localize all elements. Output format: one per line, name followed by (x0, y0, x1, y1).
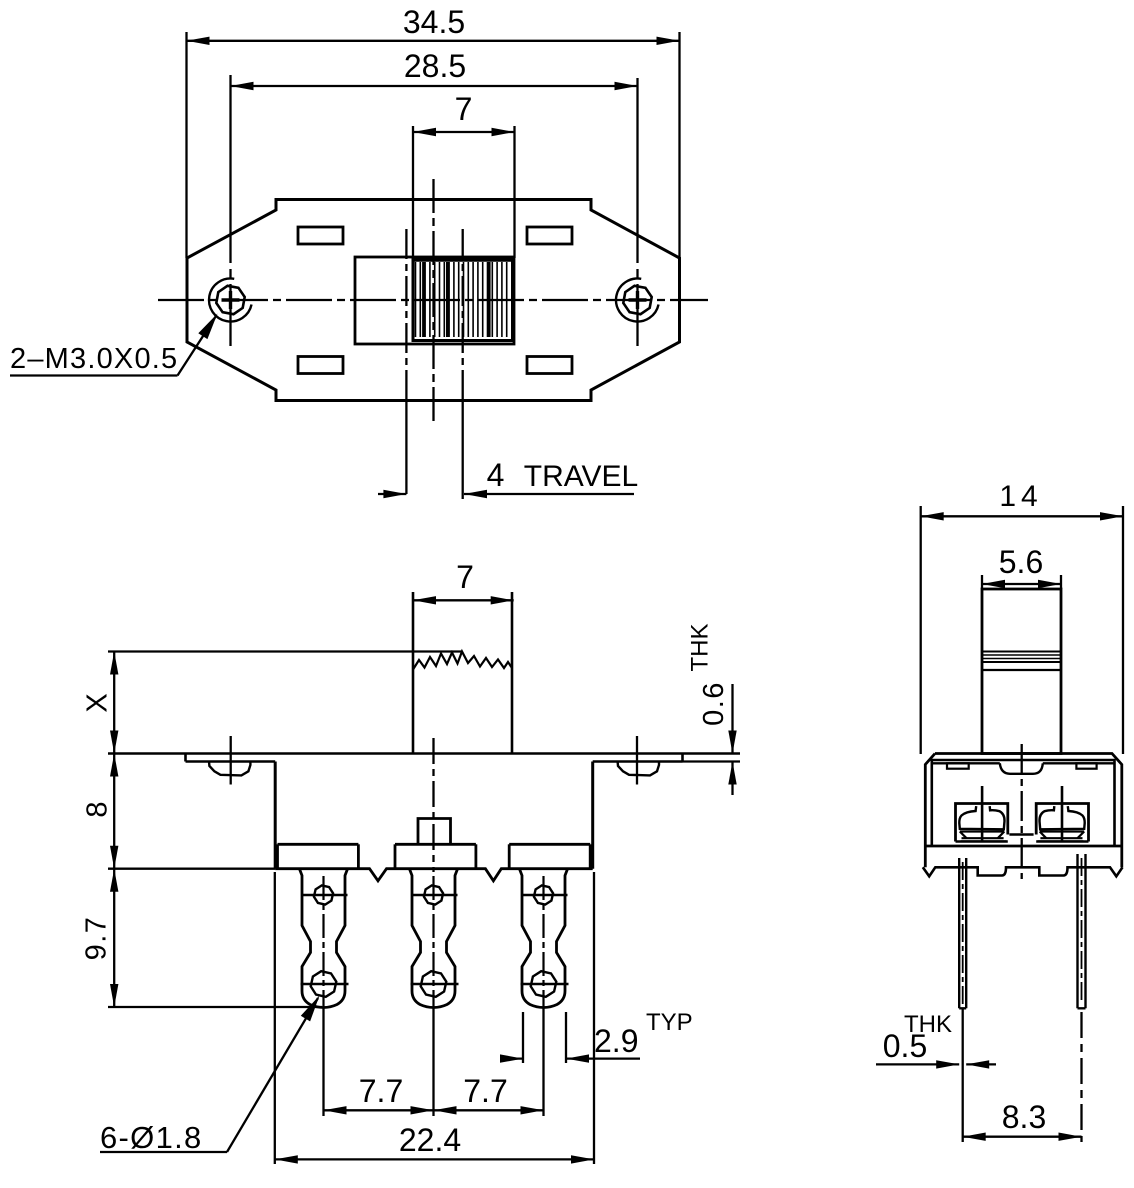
svg-text:7.7: 7.7 (463, 1073, 507, 1109)
top view: travel position line right (462, 229, 464, 400)
front view: left mounting ear countersink (209, 762, 250, 776)
top view: mounting slot lower-left (298, 357, 343, 374)
top view: travel position line left (405, 229, 407, 400)
front view: mounting flange (108, 752, 740, 755)
svg-text:X: X (82, 693, 114, 712)
side view: knob knurl grooves (982, 651, 1061, 653)
side view: base block (924, 845, 1123, 848)
dimension 2.9 TYP terminal width (522, 1012, 524, 1063)
svg-text:7: 7 (456, 559, 474, 595)
top view: mounting slot lower-right (527, 357, 572, 374)
top view: knurled slider knob (413, 259, 513, 341)
dimension 8.3 pin spacing (962, 1008, 964, 1142)
front view: body centerline (432, 738, 434, 872)
dimension 7 knob width (top view) (412, 126, 414, 258)
svg-text:2–M3.0X0.5: 2–M3.0X0.5 (10, 343, 178, 375)
side view: left terminal blade (981, 786, 984, 842)
dimension 28.5 hole spacing (231, 85, 638, 87)
front view: terminal base blocks (278, 843, 359, 846)
top view: central slider slot opening (355, 257, 514, 344)
side view: inner cavity box (932, 760, 1115, 846)
dimension 8 body height (110, 754, 118, 777)
top view: mounting slot upper-right (527, 227, 572, 244)
svg-text:34.5: 34.5 (403, 4, 465, 40)
side view: centerline (1021, 744, 1023, 879)
side view: right pin (1078, 854, 1086, 1008)
svg-text:6-Ø1.8: 6-Ø1.8 (100, 1120, 203, 1155)
svg-text:5.6: 5.6 (999, 544, 1043, 580)
svg-text:THK: THK (687, 624, 714, 672)
svg-text:9.7: 9.7 (81, 916, 113, 961)
dimension 0.5 THK pin thickness (876, 1063, 959, 1065)
top view: right mounting hole 2-M3.0X0.5 (623, 286, 651, 314)
side view: body outline (925, 754, 1122, 868)
side view: right terminal blade (1061, 786, 1064, 842)
side view: slot recess left (947, 763, 969, 768)
side view: left movable contact (959, 806, 1004, 829)
dimension 0.6 THK flange thickness (731, 684, 733, 754)
front view: right mounting ear countersink (618, 762, 659, 776)
front view: slider knob with break line (412, 592, 415, 754)
dimension 5.6 knob depth (981, 575, 983, 589)
dimension 7.7 terminal pitch x2 (324, 1109, 544, 1111)
svg-text:2.9: 2.9 (594, 1023, 638, 1059)
svg-text:TYP: TYP (646, 1009, 693, 1036)
top view: left mounting hole 2-M3.0X0.5 (216, 286, 244, 314)
svg-text:8.3: 8.3 (1002, 1099, 1046, 1135)
top view: switch cover outline (187, 200, 680, 401)
terminal center extension lines (322, 1008, 324, 1116)
side view: base bottom edge with feet and bosses (923, 867, 1123, 876)
side view: chamber floor between contacts (1009, 833, 1033, 835)
dimension 14 body depth (920, 506, 922, 754)
dimension 22.4 body width (274, 872, 276, 1164)
side view: left contact wedge and plates (960, 832, 1005, 839)
dimension 7 knob width (front view) (413, 599, 514, 601)
front view: body bottom edge with V notches (275, 869, 593, 881)
side view: right contact wedge and plates (1040, 832, 1085, 839)
top view: horizontal centerline (158, 299, 708, 301)
side view: left pin 0.5 thick (959, 858, 966, 1008)
dimension 9.7 terminal length (110, 869, 118, 892)
side view: slot recess right (1076, 763, 1096, 768)
top view: mounting slot upper-left (298, 227, 343, 244)
side view: right movable contact (1039, 806, 1084, 829)
svg-text:14: 14 (999, 480, 1042, 513)
svg-text:8: 8 (82, 801, 114, 817)
dimension X knob height (108, 650, 462, 652)
front view: center locating boss (418, 819, 451, 846)
dimension 34.5 overall width (185, 32, 187, 258)
svg-text:0.5: 0.5 (883, 1028, 927, 1064)
side view: slider knob shaft (982, 589, 1061, 754)
svg-text:7: 7 (455, 91, 473, 127)
side view: left contact chamber (956, 804, 1008, 842)
front view: switch body (274, 762, 277, 869)
svg-text:7.7: 7.7 (359, 1073, 403, 1109)
svg-text:22.4: 22.4 (399, 1122, 461, 1158)
dimension 4 TRAVEL (378, 493, 406, 495)
side view: inner shelf line with center dip (932, 762, 1000, 764)
svg-text:4: 4 (487, 457, 505, 493)
svg-text:28.5: 28.5 (404, 48, 466, 84)
svg-text:TRAVEL: TRAVEL (524, 460, 638, 493)
side view: right contact chamber (1036, 804, 1088, 842)
svg-text:0.6: 0.6 (698, 681, 730, 726)
top view: knob centerline (432, 179, 434, 425)
